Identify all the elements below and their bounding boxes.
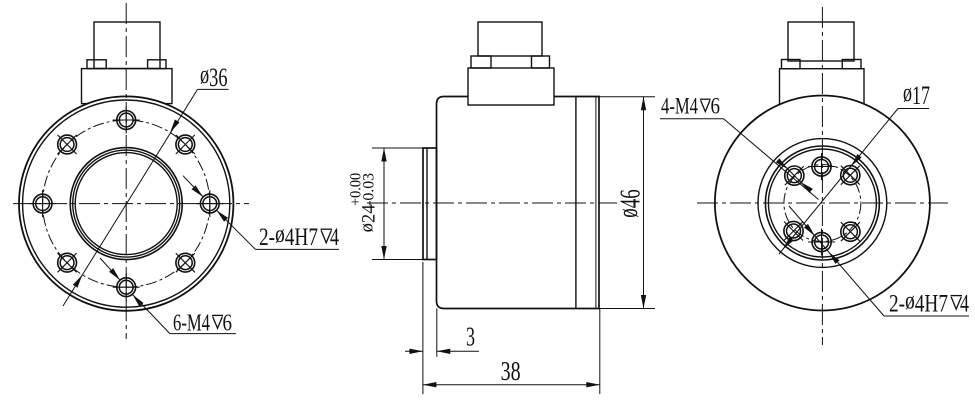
- sensor body outline: [437, 97, 576, 309]
- right connector base: [780, 69, 865, 104]
- right connector top block: [788, 22, 854, 61]
- svg-text:2-ø4H7: 2-ø4H7: [259, 221, 318, 251]
- phi46 text (rotated): [613, 189, 647, 218]
- phi36 label: [198, 88, 229, 90]
- upper-left M4 hole: [58, 135, 77, 154]
- left connector top block: [94, 22, 160, 69]
- phi36 dimension line: [63, 89, 198, 306]
- center bore circles: [70, 148, 182, 260]
- right dowel hole phi4H7: [196, 190, 223, 217]
- phi24 with tolerance text (rotated): [358, 204, 380, 232]
- phi24 dimension line: [383, 148, 385, 260]
- right view 2-phi4H7 depth4 leader: [789, 206, 884, 316]
- flange outer circle: [19, 96, 233, 310]
- lower-left M4 hole: [58, 253, 77, 272]
- lower-right M4 hole: [841, 222, 860, 241]
- bolt circle phi17 (dash-dot): [784, 165, 861, 242]
- lower-left M4 hole: [784, 221, 803, 240]
- svg-text:2-ø4H7: 2-ø4H7: [889, 287, 948, 317]
- flange chamfer circle: [23, 100, 230, 307]
- left boss (phi24): [423, 148, 437, 260]
- upper-right M4 hole: [841, 166, 860, 185]
- right view horizontal centerline: [697, 202, 948, 204]
- left hole: [29, 190, 56, 217]
- upper-left M4 hole: [785, 166, 804, 185]
- top hole (dowel): [113, 107, 140, 134]
- bolt circle phi36 (dash-dot): [43, 120, 210, 287]
- svg-text:ø46: ø46: [613, 189, 647, 218]
- boss circles: [765, 146, 879, 260]
- right cap: [576, 97, 599, 309]
- svg-text:4: 4: [330, 224, 339, 251]
- right view vertical centerline: [821, 7, 823, 345]
- left connector right tab: [148, 60, 166, 69]
- phi17 dimension line: [779, 109, 898, 255]
- phi46 dimension line: [643, 97, 645, 309]
- svg-text:3: 3: [466, 321, 475, 351]
- svg-text:4: 4: [960, 290, 969, 317]
- svg-text:ø24: ø24: [358, 204, 380, 232]
- body/cap boundary: [575, 97, 577, 309]
- middle connector right tab: [532, 56, 550, 68]
- dim 38 extension line right: [599, 309, 601, 395]
- dim 3 extension lines: [422, 262, 424, 394]
- 4-M4 depth6 leader: [724, 119, 819, 200]
- right connector right tab: [842, 60, 861, 69]
- svg-text:-0.03: -0.03: [361, 173, 378, 206]
- svg-text:6: 6: [223, 311, 233, 337]
- recess circle: [758, 139, 887, 268]
- left view horizontal centerline: [13, 203, 249, 205]
- phi46 extension lines: [599, 96, 655, 98]
- middle view horizontal centerline: [367, 202, 617, 204]
- left view vertical centerline: [125, 3, 127, 339]
- lower-right M4 hole: [176, 253, 195, 272]
- svg-text:4-M4: 4-M4: [661, 94, 698, 119]
- middle connector top block: [478, 22, 542, 56]
- dim 38 line: [423, 384, 600, 386]
- svg-text:6-M4: 6-M4: [173, 311, 210, 337]
- bottom M4 hole: [113, 274, 140, 301]
- upper-right M4 hole: [176, 135, 195, 154]
- bottom hole phi4H7: [808, 229, 835, 256]
- svg-text:ø17: ø17: [903, 78, 930, 110]
- dim 3 lines and arrows: [405, 350, 423, 352]
- 6-M4 depth6 leader: [100, 258, 120, 280]
- phi24 dimension extension lines: [372, 147, 434, 149]
- top hole phi4H7: [808, 153, 835, 180]
- left connector base: [82, 69, 173, 104]
- middle connector left tab: [471, 56, 491, 68]
- right view outer circle: [715, 96, 930, 311]
- svg-text:38: 38: [501, 356, 521, 386]
- left view 2-phi4H7 depth4 leader: [183, 176, 203, 197]
- svg-text:6: 6: [711, 94, 721, 119]
- svg-text:ø36: ø36: [200, 60, 228, 92]
- right connector left tab: [782, 60, 801, 69]
- middle connector base: [468, 68, 554, 105]
- left connector left tab: [87, 60, 106, 69]
